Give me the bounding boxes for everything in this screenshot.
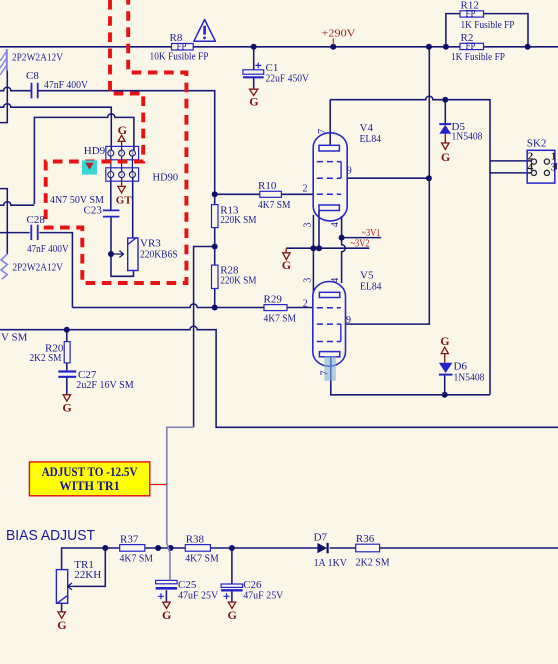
label C26 [243, 579, 262, 591]
svg-text:G: G [282, 258, 291, 272]
wire D6 branch [444, 375, 446, 394]
net label ~3V1 [362, 228, 381, 239]
wire V5 anode to D6 node [331, 356, 490, 394]
node VR3 wiper junction [108, 251, 114, 257]
wire heater tap to HD9 pin1 [0, 104, 111, 150]
svg-text:G: G [440, 334, 449, 348]
label HD9 [84, 145, 106, 157]
label C28 [27, 214, 46, 226]
node R12 right [525, 44, 531, 50]
label C23 value [50, 194, 104, 206]
wire to HD9 pin3 [34, 114, 133, 204]
label VR3 value [140, 249, 178, 261]
svg-text:~3V2: ~3V2 [351, 239, 370, 250]
ground at C27 [62, 394, 71, 414]
svg-text:220KB6S: 220KB6S [140, 249, 178, 261]
svg-text:2: 2 [303, 299, 308, 310]
svg-text:3: 3 [551, 162, 557, 174]
wire V4 pin9 to g2 bus [347, 177, 429, 179]
label V5 type [360, 281, 382, 293]
svg-text:9: 9 [346, 315, 351, 326]
svg-text:+290V: +290V [322, 28, 356, 40]
svg-text:WITH TR1: WITH TR1 [59, 479, 119, 493]
label R13 value [220, 214, 256, 226]
ground at C26 [228, 602, 237, 623]
svg-text:3: 3 [303, 223, 314, 228]
node V5 cathode [310, 245, 316, 251]
label R20 [45, 343, 64, 355]
svg-text:GT: GT [116, 195, 133, 207]
ground above D6 [440, 334, 449, 363]
pin label V4-7 [317, 129, 328, 134]
label R12 value [461, 19, 515, 31]
label VR3 [140, 237, 161, 249]
wire main HT bus +290V [0, 46, 558, 48]
label C1 [266, 62, 279, 74]
svg-text:V5: V5 [360, 269, 374, 281]
wire left tap A down to winding [0, 189, 7, 254]
svg-text:EL84: EL84 [360, 133, 382, 145]
net label +290V [322, 28, 356, 45]
wire R20 C27 branch [66, 330, 68, 395]
svg-text:C23: C23 [84, 205, 103, 217]
capacitor C28 [31, 225, 37, 240]
label TR1 value [74, 569, 101, 581]
svg-text:4K7 SM: 4K7 SM [258, 199, 291, 211]
label R29 [264, 294, 283, 306]
svg-text:4: 4 [330, 222, 341, 227]
svg-text:HD9: HD9 [84, 145, 106, 157]
label R28 value [220, 275, 256, 287]
pin label V5-9 [346, 315, 351, 326]
label V4 [360, 122, 374, 134]
svg-text:47nF 400V: 47nF 400V [44, 79, 88, 91]
wire bias row W3 to V5 grid [72, 304, 312, 308]
resistor R29 [264, 305, 287, 311]
svg-text:VR3: VR3 [140, 237, 161, 249]
wire cathode ground row ~3V2 [286, 247, 369, 249]
label D5 type [452, 131, 483, 143]
pin label V4-4 [330, 222, 341, 227]
wire C26 feed [231, 548, 233, 584]
svg-text:BIAS ADJUST: BIAS ADJUST [6, 528, 95, 544]
wire heater column with hop [342, 216, 346, 283]
svg-text:22KH: 22KH [74, 569, 101, 581]
ground at V5 cathode row [282, 248, 291, 272]
transformer winding 2P2W2A12V upper [0, 49, 7, 75]
label C25 value [178, 590, 218, 602]
label R29 value [264, 313, 297, 325]
label R8 [170, 32, 183, 44]
node bias-C25 right [168, 545, 174, 551]
svg-text:HD90: HD90 [153, 172, 179, 184]
svg-text:4K7 SM: 4K7 SM [264, 313, 297, 325]
node heater 3V1 [339, 235, 345, 241]
label R28 [220, 264, 239, 276]
label R37 [120, 533, 139, 545]
transformer winding 2P2W2A12V lower [1, 254, 7, 279]
pin label V4-3 [303, 223, 314, 228]
diode D5 [439, 124, 451, 134]
svg-text:G: G [441, 150, 450, 164]
svg-text:2: 2 [303, 183, 308, 194]
potentiometer TR1 [56, 570, 72, 612]
ground GT at HD90 [116, 178, 133, 207]
tube V4 EL84 [313, 133, 347, 221]
label C25 [178, 579, 197, 591]
node V4 cathode [316, 245, 322, 251]
pin label V4-9 [347, 165, 352, 176]
resistor R12 [460, 9, 484, 19]
node D5 tap [442, 97, 448, 103]
ground at C25 [162, 602, 171, 623]
wire V4 anode to SK2 pin2 [330, 96, 531, 395]
ground at D5 [441, 134, 450, 164]
label C26 value [243, 590, 283, 602]
wire V4 cathode drop [318, 211, 320, 249]
svg-text:220K SM: 220K SM [220, 275, 256, 287]
label winding lower 2P2W2A12V [13, 261, 63, 273]
resistor R10 [260, 191, 282, 197]
node C26 tap [229, 545, 235, 551]
svg-text:G: G [162, 608, 171, 622]
svg-text:G: G [57, 618, 66, 632]
resistor R2 [460, 41, 484, 51]
svg-text:R8: R8 [170, 32, 183, 44]
label R37 value [120, 552, 154, 564]
ground at TR1 [57, 612, 66, 633]
wire C8 row to R13 column [0, 87, 215, 307]
connector HD90 [106, 168, 139, 181]
wire D5 branch [444, 100, 446, 124]
wire C1 branch [253, 47, 255, 88]
svg-text:10K Fusible FP: 10K Fusible FP [150, 51, 209, 63]
node g2 bus tap [426, 44, 432, 50]
svg-text:7: 7 [320, 371, 331, 376]
capacitor C25 [156, 580, 178, 601]
label R2 [461, 32, 474, 44]
wire R10 row V4 grid [215, 193, 314, 195]
svg-text:3: 3 [130, 150, 134, 158]
ground at HD9 [118, 123, 127, 142]
pin label V5-4 [330, 278, 341, 283]
svg-text:C8: C8 [26, 70, 39, 82]
pin label V4-2 [303, 183, 308, 194]
pin label V5-2 [303, 299, 308, 310]
marker cyan square [82, 160, 97, 174]
svg-text:~3V1: ~3V1 [362, 228, 381, 239]
svg-text:D6: D6 [454, 360, 468, 372]
connector HD9 [106, 146, 139, 159]
resistor R20 [64, 342, 70, 363]
node R12 left [443, 44, 449, 50]
svg-text:C28: C28 [27, 214, 46, 226]
node C1 tap [251, 44, 257, 50]
note pointer line [150, 484, 167, 486]
tube V5 EL84 [313, 282, 346, 367]
svg-text:1A 1KV: 1A 1KV [314, 557, 347, 569]
diode D7 [317, 543, 327, 553]
wire HD90 pin1 to C23 [110, 178, 112, 210]
capacitor C26 [221, 584, 243, 602]
svg-text:G: G [249, 95, 258, 109]
svg-text:V4: V4 [360, 122, 374, 134]
resistor R38 [185, 545, 210, 552]
wire bias chain bottom row [62, 548, 558, 570]
wire feedback row W4 to right edge [0, 326, 558, 427]
label C8 value [44, 79, 88, 91]
label BIAS ADJUST [6, 528, 95, 544]
svg-text:R37: R37 [120, 533, 139, 545]
diode D6 [439, 363, 453, 375]
svg-text:220K SM: 220K SM [220, 214, 256, 226]
svg-text:7: 7 [317, 129, 328, 134]
wire C23 bottom to VR3 wiper node [111, 217, 134, 277]
resistor R8 [172, 41, 194, 51]
label V5 [360, 269, 374, 281]
pin label V5-3 [303, 278, 314, 283]
node TR1 wiper tap [102, 545, 108, 551]
svg-text:2P2W2A12V: 2P2W2A12V [12, 52, 63, 64]
wire HD9-HD90 pin stubs [111, 156, 133, 172]
wire HD9 G stub [121, 141, 123, 150]
capacitor C23 [103, 210, 120, 216]
wire purple bias feed [167, 427, 194, 580]
node V4 pin9 junction [426, 175, 432, 181]
label C27 [78, 369, 97, 381]
svg-text:R36: R36 [356, 533, 375, 545]
label V SM partial [1, 332, 28, 344]
svg-text:3: 3 [130, 171, 134, 179]
label HD90 [153, 172, 179, 184]
wire R13-R28 junction link [194, 247, 215, 428]
svg-text:ADJUST TO -12.5V: ADJUST TO -12.5V [42, 465, 138, 479]
label R2 value [451, 51, 505, 63]
warning triangle [194, 20, 216, 42]
label R20 value [30, 352, 62, 364]
resistor R28 [212, 265, 219, 288]
svg-text:1: 1 [551, 150, 557, 162]
svg-text:2P2W2A12V: 2P2W2A12V [13, 261, 63, 273]
svg-text:R2: R2 [461, 32, 474, 44]
label C8 [26, 70, 39, 82]
potentiometer VR3 [111, 237, 138, 270]
label R10 [258, 180, 277, 192]
svg-text:47uF 25V: 47uF 25V [178, 590, 218, 602]
svg-text:SK2: SK2 [527, 137, 547, 149]
node bias-C25 left [155, 545, 161, 551]
svg-text:4K7 SM: 4K7 SM [120, 552, 154, 564]
wire V4 anode riser pin7 [329, 100, 331, 146]
wire ~3V1 stub [342, 237, 382, 239]
label C27 value [76, 379, 134, 391]
net label ~3V2 [351, 239, 370, 250]
svg-text:R38: R38 [186, 533, 205, 545]
svg-text:47uF 25V: 47uF 25V [243, 590, 283, 602]
capacitor C8 [32, 83, 38, 99]
label D7 value [314, 557, 347, 569]
svg-text:V SM: V SM [1, 332, 28, 344]
svg-text:G: G [228, 608, 237, 622]
node R28-R29 junction [212, 305, 218, 311]
resistor R13 [212, 205, 219, 228]
resistor R36 [356, 544, 380, 552]
label R13 [220, 204, 239, 216]
wire left tap B [0, 202, 34, 206]
connector SK2 [527, 150, 557, 183]
ground at C1 [249, 88, 258, 109]
label C23 [84, 205, 103, 217]
svg-text:3: 3 [303, 278, 314, 283]
svg-text:9: 9 [347, 165, 352, 176]
label R12 [461, 0, 479, 12]
label SK2 [527, 137, 547, 149]
svg-text:1N5408: 1N5408 [454, 372, 485, 384]
label R36 [356, 533, 375, 545]
wire winding drop to left edge [0, 71, 7, 123]
wire HD90 pin3 to VR3 [132, 178, 134, 238]
svg-text:R10: R10 [258, 180, 277, 192]
svg-text:2: 2 [119, 150, 123, 158]
node R20 tap [64, 327, 70, 333]
wire g2 bus from HT down to V5 pin9 [346, 47, 430, 324]
resistor R37 [120, 545, 145, 552]
label C28 value [27, 243, 69, 255]
wire C28 row [0, 233, 72, 308]
svg-text:1N5408: 1N5408 [452, 131, 483, 143]
svg-text:4K7 SM: 4K7 SM [185, 552, 219, 564]
capacitor C27 [58, 372, 76, 377]
wire V5 cathode riser [312, 215, 314, 293]
svg-text:G: G [118, 123, 127, 137]
label R8 value [150, 51, 209, 63]
note yellow box ADJUST [29, 462, 149, 496]
label D5 [452, 121, 466, 133]
label R36 value [356, 556, 390, 568]
node D6 tap [442, 392, 448, 398]
svg-text:2u2F 16V SM: 2u2F 16V SM [76, 379, 134, 391]
wire TR1 wiper link [72, 548, 105, 586]
label D6 type [454, 372, 485, 384]
svg-text:1K Fusible FP: 1K Fusible FP [461, 19, 515, 31]
label winding upper 2P2W2A12V [12, 52, 63, 64]
highlight V5 pin7 [324, 356, 335, 381]
svg-text:4: 4 [330, 278, 341, 283]
capacitor C1 [243, 63, 264, 78]
svg-text:R12: R12 [461, 0, 479, 12]
svg-text:22uF 450V: 22uF 450V [266, 72, 310, 84]
region boundary red dashed [46, 0, 187, 283]
label C1 value [266, 72, 310, 84]
wire R12 parallel loop [446, 14, 528, 47]
svg-text:2K2 SM: 2K2 SM [356, 556, 390, 568]
node R13-R28 junction [212, 244, 218, 250]
svg-text:1: 1 [109, 150, 113, 158]
svg-text:1: 1 [109, 171, 113, 179]
svg-text:R29: R29 [264, 294, 283, 306]
svg-text:EL84: EL84 [360, 281, 382, 293]
svg-text:G: G [62, 400, 71, 414]
label D6 [454, 360, 468, 372]
svg-text:D7: D7 [314, 532, 328, 544]
node R10 junction [212, 191, 218, 197]
svg-text:47nF 400V: 47nF 400V [27, 243, 69, 255]
label TR1 [74, 559, 94, 571]
pin label V5-7 [320, 371, 331, 376]
svg-text:1K Fusible FP: 1K Fusible FP [451, 51, 505, 63]
node +290V tap [330, 44, 336, 50]
svg-text:2K2 SM: 2K2 SM [30, 352, 62, 364]
label D7 [314, 532, 328, 544]
label R10 value [258, 199, 291, 211]
label V4 type [360, 133, 382, 145]
label R38 value [185, 552, 219, 564]
label R38 [186, 533, 205, 545]
svg-text:4: 4 [528, 162, 534, 174]
